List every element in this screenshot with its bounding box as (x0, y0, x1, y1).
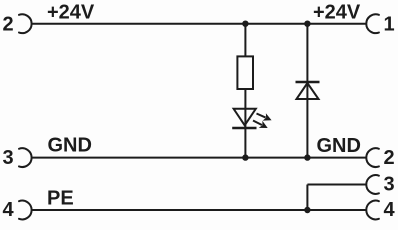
svg-text:GND: GND (48, 135, 92, 157)
node junction top right branch (304, 21, 310, 27)
svg-text:4: 4 (383, 199, 395, 221)
wire vertical PE to pin 3 stub (306, 185, 308, 211)
wire diode branch vertical (306, 24, 308, 158)
resistor R1 (237, 56, 253, 89)
LED D1 light arrow 2 (251, 117, 269, 132)
svg-text:1: 1 (383, 14, 394, 36)
left contact pin 3 (19, 148, 32, 167)
node junction PE stub (304, 207, 310, 213)
svg-text:+24V: +24V (47, 1, 95, 23)
left contact pin 4 (19, 201, 32, 220)
LED D1 light arrow 1 (255, 110, 273, 124)
right contact pin 3 (366, 175, 379, 194)
svg-text:2: 2 (2, 14, 13, 36)
svg-text:3: 3 (2, 147, 13, 169)
node junction GND left branch (242, 154, 248, 160)
wire resistor-LED branch vertical (244, 24, 246, 158)
wire PE net bottom (32, 209, 367, 211)
svg-text:4: 4 (2, 199, 14, 221)
svg-text:3: 3 (383, 174, 394, 196)
svg-text:GND: GND (317, 135, 361, 157)
LED D1 (232, 109, 256, 128)
svg-text:+24V: +24V (313, 1, 361, 23)
left contact pin 2 (19, 14, 32, 33)
wire stub to right pin 3 (307, 184, 366, 186)
right contact pin 1 (366, 14, 379, 33)
right contact pin 4 (366, 201, 379, 220)
right contact pin 2 (366, 148, 379, 167)
svg-text:2: 2 (383, 147, 394, 169)
wire +24V net top (32, 23, 367, 25)
node junction GND right branch (304, 154, 310, 160)
protection diode V1 (296, 82, 320, 99)
node junction top left branch (242, 21, 248, 27)
svg-text:PE: PE (47, 188, 74, 210)
wire GND net middle (32, 157, 367, 159)
